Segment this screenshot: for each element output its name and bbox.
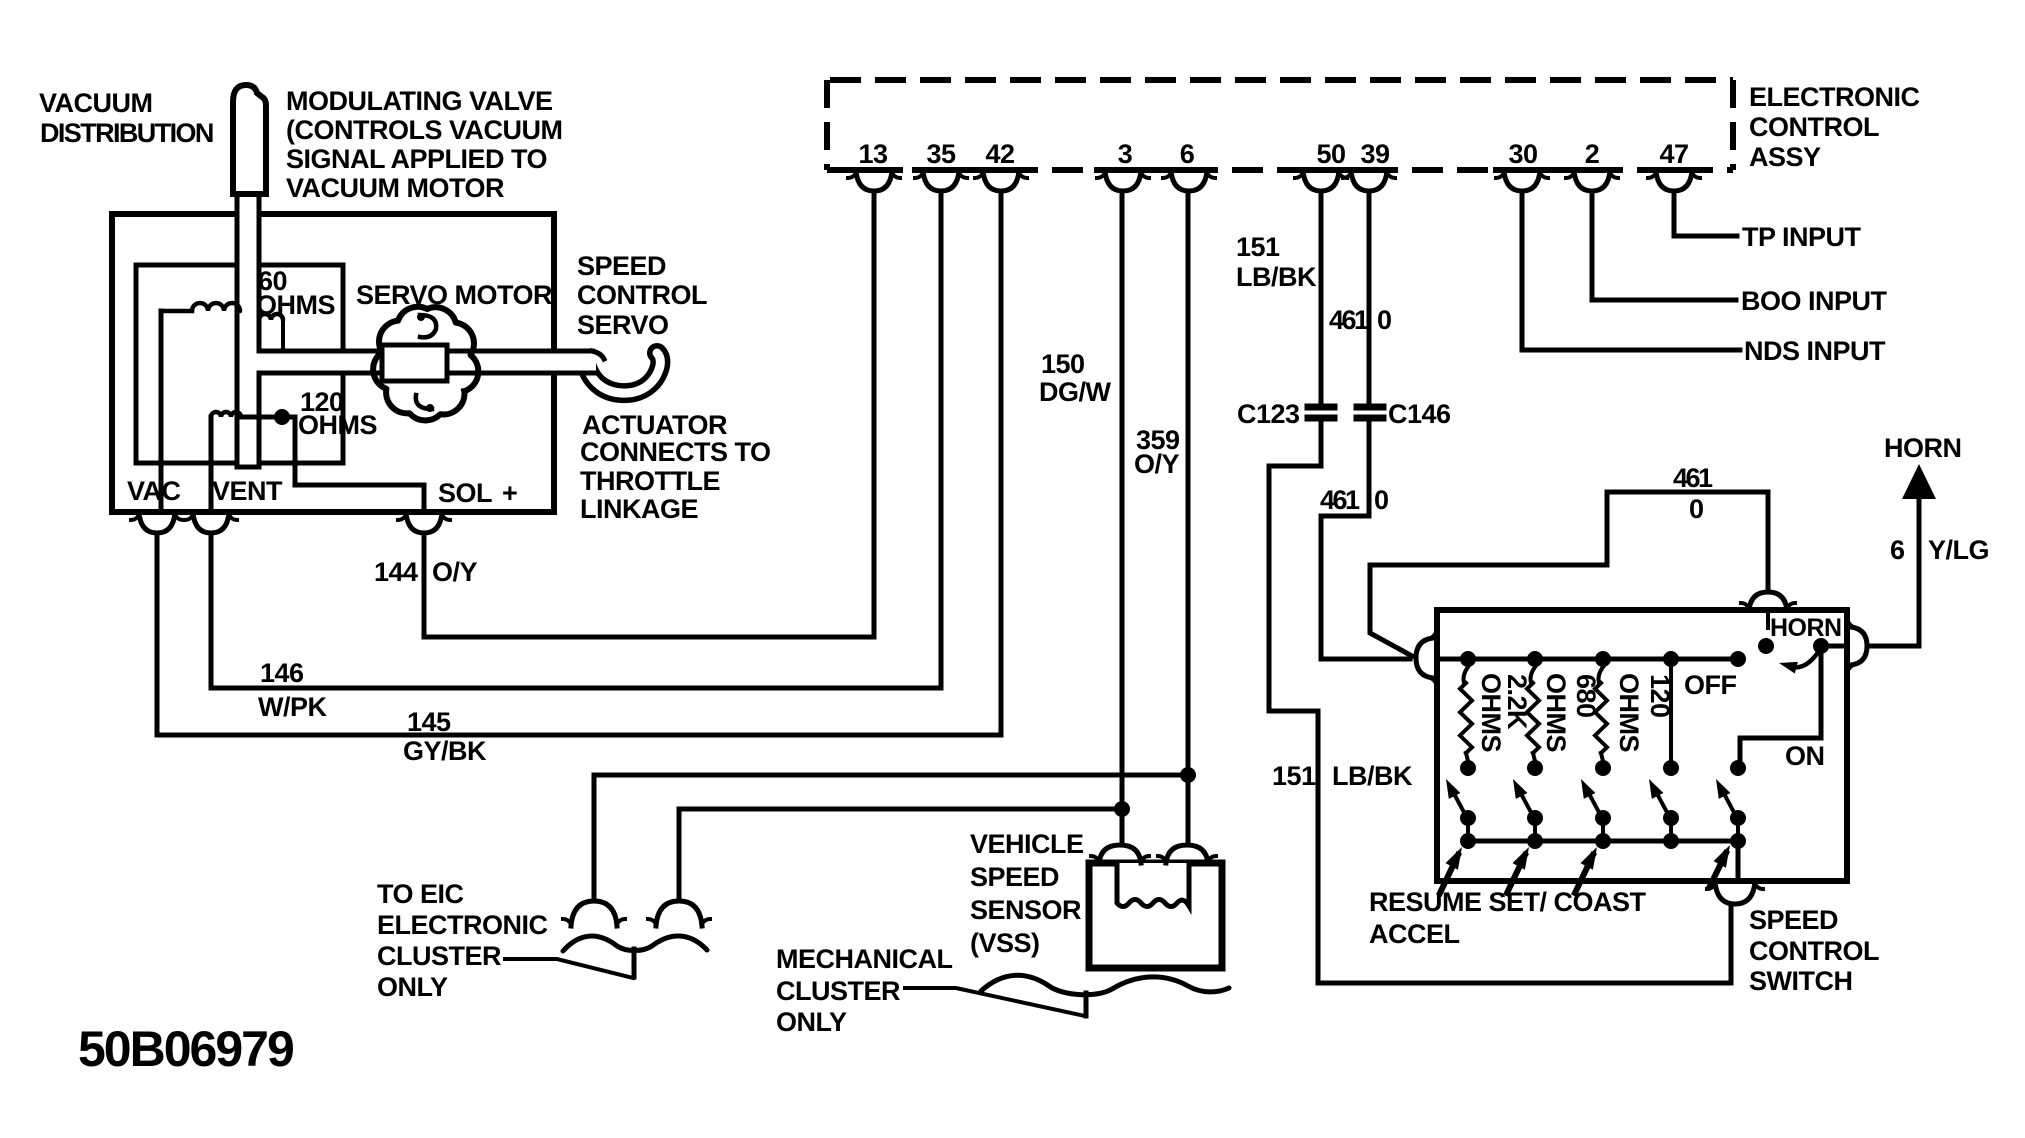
svg-text:ACTUATOR: ACTUATOR bbox=[582, 410, 727, 440]
servo inner box bbox=[136, 265, 343, 463]
svg-text:47: 47 bbox=[1659, 139, 1688, 169]
wire BOO input from pin 2 bbox=[1592, 191, 1736, 300]
bottom bus dot x=1535 bbox=[1527, 833, 1543, 849]
svg-text:150: 150 bbox=[1041, 349, 1085, 379]
resistor 2.2K OHMS col2 bbox=[1531, 667, 1536, 683]
svg-text:30: 30 bbox=[1508, 139, 1537, 169]
pointer line to VSS squiggle bbox=[905, 988, 1085, 1016]
svg-text:HORN: HORN bbox=[1770, 614, 1842, 642]
VSS inner notch bbox=[1117, 863, 1189, 907]
svg-text:THROTTLE: THROTTLE bbox=[580, 466, 720, 496]
svg-text:146: 146 bbox=[260, 658, 304, 688]
svg-text:DISTRIBUTION: DISTRIBUTION bbox=[40, 118, 213, 148]
electronic control assy box (dashed) bbox=[830, 77, 1733, 83]
svg-text:VACUUM MOTOR: VACUUM MOTOR bbox=[286, 173, 504, 203]
svg-text:50: 50 bbox=[1316, 139, 1345, 169]
resistor 680 OHMS col3 bbox=[1599, 667, 1604, 683]
pin 47 bbox=[1648, 167, 1700, 173]
pivot dot x=1671 bbox=[1663, 810, 1679, 826]
pivot dot x=1603 bbox=[1595, 810, 1611, 826]
wire EIC branch upper bbox=[594, 775, 1188, 901]
horn contact right bbox=[1813, 638, 1829, 654]
svg-text:0: 0 bbox=[1377, 305, 1392, 335]
svg-text:TP INPUT: TP INPUT bbox=[1742, 222, 1862, 252]
wire 150 DG/W pin 3 to VSS bbox=[1120, 191, 1125, 844]
contact dot x=1671 bbox=[1663, 760, 1679, 776]
svg-text:VEHICLE: VEHICLE bbox=[970, 829, 1084, 859]
pin 39 bbox=[1343, 167, 1395, 173]
svg-text:OHMS: OHMS bbox=[298, 410, 377, 440]
wire NDS input from pin 30 bbox=[1522, 191, 1740, 350]
switch inlet connector bbox=[1416, 638, 1433, 678]
actuating arrow x=1535 bbox=[1507, 855, 1525, 893]
switch blade x=1738 bbox=[1722, 790, 1736, 816]
svg-text:42: 42 bbox=[985, 139, 1014, 169]
svg-text:CONTROL: CONTROL bbox=[1749, 112, 1879, 142]
svg-text:6: 6 bbox=[1890, 535, 1905, 565]
svg-text:(CONTROLS VACUUM: (CONTROLS VACUUM bbox=[286, 115, 562, 145]
junction on pin 6 wire bbox=[1180, 767, 1196, 783]
switch blade x=1603 bbox=[1587, 790, 1601, 816]
pivot dot x=1738 bbox=[1730, 810, 1746, 826]
svg-text:LB/BK: LB/BK bbox=[1236, 262, 1317, 292]
svg-text:2.2K: 2.2K bbox=[1502, 674, 1532, 730]
svg-text:461: 461 bbox=[1320, 485, 1360, 515]
contact dot x=1603 bbox=[1595, 760, 1611, 776]
EIC connector right bbox=[656, 901, 702, 926]
svg-text:120: 120 bbox=[1645, 674, 1675, 718]
VSS connector right bbox=[1166, 845, 1208, 863]
svg-text:HORN: HORN bbox=[1884, 433, 1962, 463]
svg-text:BOO INPUT: BOO INPUT bbox=[1741, 286, 1888, 316]
svg-text:680: 680 bbox=[1571, 674, 1601, 718]
svg-text:SPEED: SPEED bbox=[1749, 905, 1838, 935]
actuating arrow x=1468 bbox=[1440, 855, 1458, 893]
svg-text:LB/BK: LB/BK bbox=[1332, 761, 1413, 791]
pin 13 bbox=[848, 167, 900, 173]
svg-text:CLUSTER: CLUSTER bbox=[776, 976, 900, 1006]
svg-text:ASSY: ASSY bbox=[1749, 142, 1821, 172]
svg-text:3: 3 bbox=[1118, 139, 1133, 169]
svg-text:0: 0 bbox=[1689, 494, 1704, 524]
svg-text:SOL: SOL bbox=[438, 478, 492, 508]
svg-text:+: + bbox=[502, 478, 517, 508]
bus junction x=1535 bbox=[1527, 651, 1543, 667]
svg-text:ONLY: ONLY bbox=[776, 1007, 847, 1037]
svg-text:ELECTRONIC: ELECTRONIC bbox=[377, 910, 548, 940]
pin 35 bbox=[915, 167, 967, 173]
switch blade x=1671 bbox=[1655, 790, 1669, 816]
svg-text:SERVO: SERVO bbox=[577, 310, 669, 340]
EIC connector left bbox=[571, 901, 617, 926]
horn feed connector on switch top bbox=[1749, 592, 1787, 610]
modulating valve stem bbox=[237, 191, 259, 467]
pivot dot x=1535 bbox=[1527, 810, 1543, 826]
svg-text:CONTROL: CONTROL bbox=[1749, 936, 1879, 966]
wire EIC branch lower bbox=[679, 809, 1122, 901]
bus junction x=1738 bbox=[1730, 651, 1746, 667]
wire 144 O/Y SOL+ to pin 13 bbox=[424, 191, 874, 637]
svg-text:C123: C123 bbox=[1237, 399, 1300, 429]
wire VENT inside box bbox=[209, 417, 214, 512]
servo motor armature bbox=[382, 345, 447, 381]
wire 146 W/PK VENT to pin 35 bbox=[211, 191, 941, 688]
bus junction x=1603 bbox=[1595, 651, 1611, 667]
contact dot x=1468 bbox=[1460, 760, 1476, 776]
pin 6 bbox=[1163, 167, 1215, 173]
svg-text:CLUSTER: CLUSTER bbox=[377, 941, 501, 971]
svg-text:NDS INPUT: NDS INPUT bbox=[1744, 336, 1886, 366]
svg-text:OHMS: OHMS bbox=[256, 290, 335, 320]
actuating arrow col5 bbox=[1710, 853, 1726, 886]
svg-text:35: 35 bbox=[926, 139, 956, 169]
svg-text:151: 151 bbox=[1236, 232, 1280, 262]
pointer line to EIC squiggle bbox=[505, 959, 633, 978]
wire 151 LB/BK pin 50 to speed control switch bbox=[1319, 191, 1324, 404]
wire 359 O/Y pin 6 to VSS bbox=[1186, 191, 1191, 844]
winding 60 ohms right bbox=[259, 314, 283, 320]
winding 120 ohms lower coil bbox=[211, 412, 241, 417]
bottom bus dot x=1671 bbox=[1663, 833, 1679, 849]
svg-text:OHMS: OHMS bbox=[1476, 673, 1506, 752]
wire horn output inside box bbox=[1821, 644, 1846, 649]
svg-text:145: 145 bbox=[407, 707, 451, 737]
wire 461 O pin 39 bbox=[1367, 191, 1372, 404]
bottom bus dot x=1603 bbox=[1595, 833, 1611, 849]
svg-text:VACUUM: VACUUM bbox=[39, 88, 153, 118]
capacitor C123 bbox=[1308, 404, 1334, 411]
svg-text:ELECTRONIC: ELECTRONIC bbox=[1749, 82, 1920, 112]
actuator hook bbox=[586, 353, 660, 393]
servo motor gear outline bbox=[373, 307, 478, 421]
svg-text:SWITCH: SWITCH bbox=[1749, 966, 1852, 996]
wire 6 Y/LG to horn bbox=[1868, 497, 1919, 646]
svg-text:C146: C146 bbox=[1388, 399, 1451, 429]
capacitor C146 bbox=[1357, 404, 1383, 411]
svg-text:(VSS): (VSS) bbox=[970, 928, 1040, 958]
svg-text:RESUME SET/ COAST: RESUME SET/ COAST bbox=[1369, 887, 1647, 917]
svg-text:SIGNAL APPLIED TO: SIGNAL APPLIED TO bbox=[286, 144, 547, 174]
svg-text:DG/W: DG/W bbox=[1039, 377, 1112, 407]
horn contact left bbox=[1758, 638, 1774, 654]
resistor R OHMS col1 bbox=[1464, 667, 1469, 683]
svg-text:OHMS: OHMS bbox=[1541, 673, 1571, 752]
svg-text:LINKAGE: LINKAGE bbox=[580, 494, 698, 524]
terminal cup VAC bbox=[139, 513, 175, 533]
wire 461 O to horn contact bbox=[1370, 492, 1768, 656]
svg-text:13: 13 bbox=[858, 139, 888, 169]
svg-text:O/Y: O/Y bbox=[1134, 449, 1180, 479]
wire 120 col4 bbox=[1669, 667, 1673, 761]
svg-text:39: 39 bbox=[1360, 139, 1390, 169]
pin 3 bbox=[1097, 167, 1149, 173]
pivot dot x=1468 bbox=[1460, 810, 1476, 826]
svg-text:SPEED: SPEED bbox=[970, 862, 1059, 892]
terminal cup SOL bbox=[406, 513, 442, 533]
svg-text:CONNECTS TO: CONNECTS TO bbox=[580, 437, 771, 467]
pin 30 bbox=[1496, 167, 1548, 173]
VSS torn-wire squiggle bbox=[981, 975, 1229, 994]
junction on pin 3 wire bbox=[1114, 801, 1130, 817]
bus junction x=1468 bbox=[1460, 651, 1476, 667]
svg-text:TO EIC: TO EIC bbox=[377, 879, 464, 909]
contact dot x=1535 bbox=[1527, 760, 1543, 776]
switch output connector bbox=[1715, 882, 1755, 904]
vehicle speed sensor box bbox=[1089, 863, 1222, 968]
modulating valve body bbox=[233, 85, 266, 194]
horn output connector bbox=[1851, 627, 1867, 665]
svg-text:ONLY: ONLY bbox=[377, 972, 448, 1002]
svg-text:OFF: OFF bbox=[1684, 670, 1737, 700]
wire 145 GY/BK VAC to pin 42 bbox=[157, 191, 1001, 735]
winding upper coil bbox=[161, 309, 192, 314]
svg-text:ON: ON bbox=[1785, 741, 1825, 771]
switch blade x=1468 bbox=[1452, 790, 1466, 816]
wire TP input from pin 47 bbox=[1674, 191, 1737, 236]
svg-text:MECHANICAL: MECHANICAL bbox=[776, 944, 953, 974]
svg-text:Y/LG: Y/LG bbox=[1928, 535, 1989, 565]
svg-text:50B06979: 50B06979 bbox=[78, 1021, 293, 1077]
actuating arrow x=1603 bbox=[1575, 855, 1593, 893]
speed control switch box bbox=[1437, 610, 1847, 881]
VSS connector left bbox=[1099, 845, 1141, 863]
bottom bus dot x=1738 bbox=[1730, 833, 1746, 849]
servo shaft to actuator bbox=[253, 349, 596, 375]
horn arrow bbox=[1902, 464, 1936, 499]
svg-text:ACCEL: ACCEL bbox=[1369, 919, 1460, 949]
contact dot x=1738 bbox=[1730, 760, 1746, 776]
svg-text:461: 461 bbox=[1673, 463, 1713, 493]
svg-text:VAC: VAC bbox=[127, 476, 181, 506]
bus junction x=1671 bbox=[1663, 651, 1679, 667]
svg-text:0: 0 bbox=[1374, 485, 1389, 515]
svg-text:6: 6 bbox=[1180, 139, 1195, 169]
wire VAC inside box bbox=[159, 311, 164, 512]
pin 42 bbox=[975, 167, 1027, 173]
svg-text:151: 151 bbox=[1272, 761, 1316, 791]
svg-text:2: 2 bbox=[1585, 139, 1600, 169]
svg-text:MODULATING VALVE: MODULATING VALVE bbox=[286, 86, 552, 116]
horn switch blade bbox=[1792, 651, 1819, 667]
pin 2 bbox=[1566, 167, 1618, 173]
svg-text:W/PK: W/PK bbox=[258, 692, 327, 722]
terminal cup VENT bbox=[193, 513, 229, 533]
svg-text:VENT: VENT bbox=[212, 476, 283, 506]
switch bottom bus bbox=[1468, 839, 1738, 844]
gear curl bottom bbox=[416, 395, 432, 409]
wire solenoid 120-ohm to SOL+ bbox=[239, 417, 424, 512]
EIC torn-wire squiggle bbox=[563, 936, 707, 951]
switch blade x=1535 bbox=[1519, 790, 1533, 816]
svg-text:OHMS: OHMS bbox=[1614, 673, 1644, 752]
switch bus wire bbox=[1437, 657, 1738, 662]
junction 120 ohms bbox=[274, 409, 290, 425]
svg-text:GY/BK: GY/BK bbox=[403, 736, 487, 766]
svg-text:461: 461 bbox=[1329, 305, 1369, 335]
bottom bus dot x=1468 bbox=[1460, 833, 1476, 849]
svg-text:SPEED: SPEED bbox=[577, 251, 666, 281]
wire ON path bbox=[1740, 646, 1821, 764]
pin 50 bbox=[1295, 167, 1347, 173]
svg-text:CONTROL: CONTROL bbox=[577, 280, 707, 310]
svg-text:SENSOR: SENSOR bbox=[970, 895, 1081, 925]
svg-text:O/Y: O/Y bbox=[432, 557, 478, 587]
speed control servo outer box bbox=[112, 214, 554, 512]
svg-text:144: 144 bbox=[374, 557, 418, 587]
svg-text:SERVO MOTOR: SERVO MOTOR bbox=[356, 280, 552, 310]
gear curl top bbox=[420, 315, 436, 337]
